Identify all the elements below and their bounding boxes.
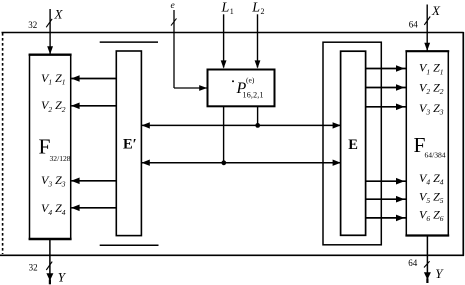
- arrow E' to F32 row4: [71, 205, 116, 212]
- bus width slash (e wire): [171, 18, 177, 25]
- svg-text:L: L: [221, 0, 230, 15]
- svg-text:(e): (e): [246, 76, 255, 85]
- input X (right): arrowhead: [424, 43, 430, 51]
- input L1: wire: [223, 14, 225, 67]
- block F 64/384: [405, 51, 449, 235]
- arrow E to F64 row4: [366, 178, 407, 185]
- arrow E' to F32 row2: [71, 103, 116, 110]
- svg-text:16,2,1: 16,2,1: [243, 91, 264, 100]
- bus width slash (bottom right): [424, 261, 430, 267]
- bus width slash (top right): [424, 17, 430, 25]
- bracket line below E': [100, 244, 159, 246]
- input L1: arrowhead: [221, 60, 227, 68]
- node on upper bus: [255, 123, 260, 128]
- input L2: arrowhead: [255, 60, 261, 68]
- svg-text:32: 32: [28, 20, 37, 30]
- wire from P bottom to node on lower bus: [223, 106, 225, 161]
- node on lower bus: [221, 160, 226, 165]
- svg-text:E′: E′: [123, 136, 137, 152]
- input e: horizontal wire into P: [174, 87, 207, 89]
- block P (e) 16,2,1: [208, 70, 275, 107]
- output Y (left): wire: [49, 239, 51, 284]
- output Y (right): arrowhead: [424, 272, 431, 280]
- svg-text:64/384: 64/384: [425, 151, 446, 160]
- svg-text:E: E: [348, 137, 358, 153]
- wire from P bottom to node on upper bus: [257, 106, 259, 124]
- svg-text:1: 1: [230, 7, 234, 16]
- outer enclosure left edge (dashed): [2, 33, 4, 254]
- svg-text:64: 64: [409, 19, 419, 29]
- inner box around E: [323, 42, 381, 245]
- svg-text:e: e: [171, 1, 175, 11]
- input X (left): wire: [49, 9, 51, 54]
- svg-text:32/128: 32/128: [50, 154, 71, 163]
- input X (left): arrowhead: [47, 46, 53, 54]
- bracket line above E': [100, 41, 158, 43]
- svg-text:L: L: [251, 0, 260, 15]
- block E: [341, 51, 366, 235]
- outer enclosure bottom edge: [0, 254, 464, 256]
- arrow E to F64 row2: [366, 84, 407, 91]
- svg-text:32: 32: [29, 263, 38, 273]
- label P (e) 16,2,1: [232, 76, 264, 100]
- outer enclosure right edge: [462, 32, 464, 256]
- outer enclosure top edge: [2, 32, 464, 34]
- arrow E to F64 row5: [366, 196, 407, 203]
- arrow E to F64 row6: [366, 215, 407, 222]
- bus width slash (top left): [46, 19, 52, 27]
- bus width slash (bottom left): [46, 262, 52, 270]
- svg-text:X: X: [54, 7, 64, 22]
- output Y (left): arrowhead: [46, 273, 53, 281]
- svg-text:X: X: [431, 3, 441, 18]
- input e: arrowhead: [199, 85, 207, 91]
- input X (right): wire: [426, 5, 428, 51]
- output Y (right): wire: [426, 236, 428, 284]
- input e: vertical wire: [173, 10, 175, 88]
- input L2: wire: [257, 14, 259, 67]
- bidirectional bus E' to E (lower): [142, 162, 340, 164]
- svg-text:2: 2: [261, 7, 265, 16]
- svg-text:64: 64: [408, 258, 418, 268]
- bidirectional bus E' to E (upper): [142, 124, 340, 126]
- arrow E' to F32 row3: [71, 178, 116, 185]
- arrow E' to F32 row1: [71, 75, 116, 82]
- arrow E to F64 row3: [366, 104, 407, 111]
- arrow E to F64 row1: [366, 65, 407, 72]
- block E': [116, 51, 141, 236]
- block F 32/128: [29, 55, 72, 239]
